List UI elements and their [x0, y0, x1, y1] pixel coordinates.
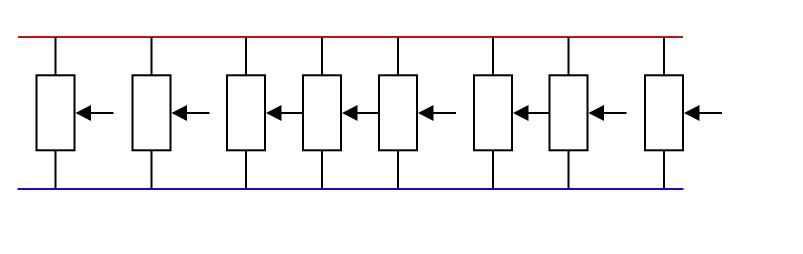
wire: R8 bottom lead to blue rail	[663, 150, 665, 189]
wire: R2 top lead from red rail	[151, 37, 153, 76]
potentiometer R7 wiper arrow	[589, 105, 627, 121]
potentiometer R3 body	[227, 75, 265, 150]
potentiometer R8 wiper arrow	[684, 105, 722, 121]
wire: R5 top lead from red rail	[397, 37, 399, 76]
wire: R5 bottom lead to blue rail	[397, 150, 399, 189]
wire: R6 top lead from red rail	[492, 37, 494, 76]
potentiometer R1 wiper arrow	[76, 105, 114, 121]
wire: R2 bottom lead to blue rail	[151, 150, 153, 189]
potentiometer R3 wiper arrow	[266, 105, 304, 121]
red positive supply rail (top bus wire)	[18, 36, 683, 38]
potentiometer R6 body	[474, 75, 512, 150]
potentiometer R4 body	[303, 75, 341, 150]
potentiometer R2 wiper arrow	[172, 105, 210, 121]
potentiometer R4 wiper arrow	[342, 105, 380, 121]
potentiometer R5 wiper arrow	[418, 105, 456, 121]
wire: R4 top lead from red rail	[321, 37, 323, 76]
potentiometer R6 wiper arrow	[513, 105, 551, 121]
wire: R3 bottom lead to blue rail	[245, 150, 247, 189]
wire: R1 top lead from red rail	[55, 37, 57, 76]
wire: R1 bottom lead to blue rail	[55, 150, 57, 189]
potentiometer R5 body	[379, 75, 417, 150]
wire: R7 top lead from red rail	[568, 37, 570, 76]
wire: R6 bottom lead to blue rail	[492, 150, 494, 189]
potentiometer R1 body	[37, 75, 75, 150]
wire: R3 top lead from red rail	[245, 37, 247, 76]
wire: R8 top lead from red rail	[663, 37, 665, 76]
blue negative supply rail (bottom bus wire)	[18, 188, 684, 190]
potentiometer R7 body	[550, 75, 588, 150]
potentiometer R8 body	[645, 75, 683, 150]
potentiometer R2 body	[133, 75, 171, 150]
wire: R7 bottom lead to blue rail	[568, 150, 570, 189]
wire: R4 bottom lead to blue rail	[321, 150, 323, 189]
